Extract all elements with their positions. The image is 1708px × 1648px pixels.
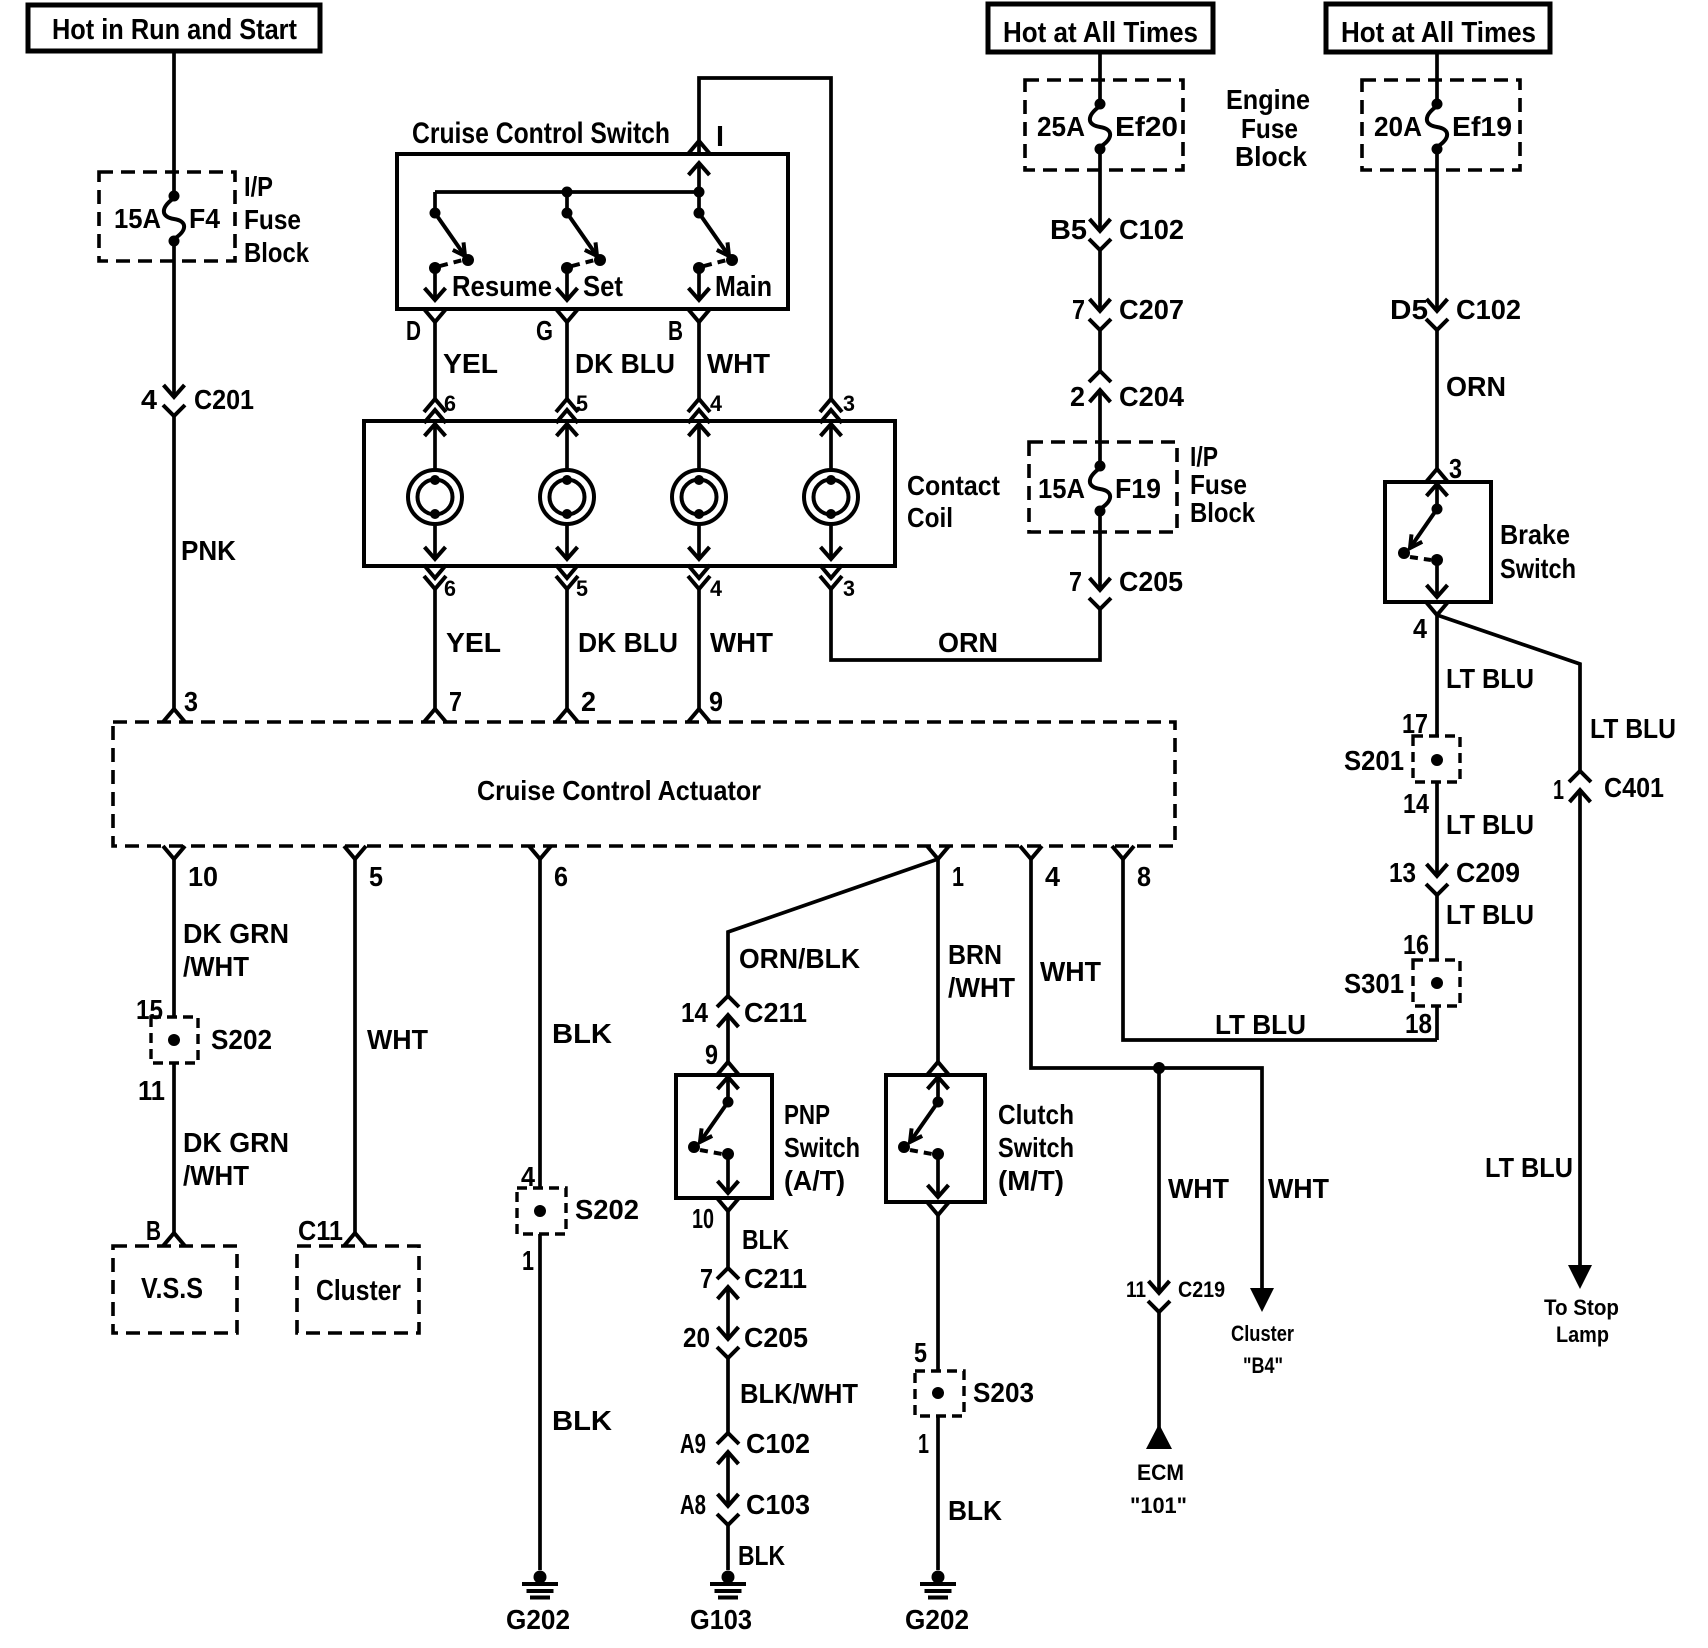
connector C102 pin D5 [1390, 294, 1521, 330]
label LT BLU right branch [1590, 713, 1676, 744]
svg-text:5: 5 [369, 861, 383, 892]
svg-text:9: 9 [705, 1039, 718, 1070]
wire F19 to connector C205 [1098, 510, 1102, 590]
svg-text:/WHT: /WHT [948, 972, 1015, 1003]
svg-text:D5: D5 [1390, 294, 1428, 325]
wire BLK C103 to ground G103 [728, 1525, 785, 1571]
junction node on WHT wire [1153, 1062, 1165, 1074]
svg-text:Block: Block [1190, 497, 1255, 528]
wire DK BLU switch G to coil 5 [567, 322, 675, 399]
connector C205 pin 20 [683, 1322, 808, 1358]
actuator pin 5 [344, 846, 383, 892]
svg-text:BLK: BLK [948, 1495, 1002, 1526]
svg-text:14: 14 [681, 997, 708, 1028]
PNP switch pin 9 [717, 1062, 739, 1075]
svg-text:Switch: Switch [998, 1132, 1074, 1163]
svg-text:DK GRN: DK GRN [183, 918, 289, 949]
svg-text:Hot at All Times: Hot at All Times [1341, 17, 1536, 49]
svg-text:G202: G202 [506, 1604, 570, 1635]
svg-text:Cluster: Cluster [316, 1275, 401, 1307]
svg-text:20: 20 [683, 1322, 710, 1353]
connector C401 pin 1 [1553, 771, 1664, 805]
svg-text:B: B [146, 1215, 161, 1246]
svg-text:3: 3 [843, 576, 855, 601]
svg-text:C207: C207 [1119, 294, 1184, 325]
svg-text:Cluster: Cluster [1231, 1321, 1294, 1346]
wire to fuse Ef20 [1098, 52, 1102, 104]
svg-text:14: 14 [1403, 788, 1429, 819]
svg-text:LT BLU: LT BLU [1485, 1152, 1573, 1183]
svg-text:13: 13 [1389, 857, 1416, 888]
svg-text:4: 4 [710, 391, 723, 416]
svg-text:"B4": "B4" [1243, 1353, 1283, 1378]
svg-text:WHT: WHT [1268, 1173, 1329, 1204]
svg-text:4: 4 [1413, 613, 1427, 644]
fuse F19 15A [1038, 461, 1161, 517]
coil pin 4 top [688, 391, 723, 423]
actuator pin 10 [163, 846, 218, 892]
connector C102 pin A9 [680, 1428, 810, 1464]
coil pin 6 top [424, 391, 456, 423]
switch common bus wire [435, 187, 705, 198]
svg-text:Switch: Switch [784, 1132, 860, 1163]
svg-text:BLK: BLK [552, 1405, 612, 1436]
svg-text:7: 7 [449, 686, 462, 717]
wire LT BLU brake switch to S201 [1435, 615, 1439, 736]
splice S203 pin 5 label [914, 1337, 927, 1368]
wire Ef19 to connector C102 [1435, 148, 1439, 311]
label I/P Fuse Block [244, 171, 309, 268]
ground G103 [690, 1571, 752, 1636]
svg-text:C211: C211 [744, 997, 807, 1028]
svg-text:Coil: Coil [907, 502, 953, 533]
resume switch blade [425, 192, 553, 303]
svg-text:WHT: WHT [367, 1024, 428, 1055]
coil pin 3 top [820, 391, 855, 423]
connector C211 pin 14 [681, 996, 807, 1028]
arrow to stop lamp [1568, 1265, 1592, 1289]
PNP switch contacts [688, 1077, 739, 1193]
svg-text:ECM: ECM [1137, 1460, 1184, 1485]
svg-text:Brake: Brake [1500, 519, 1570, 550]
label PNP Switch (A/T) [784, 1099, 860, 1196]
wire ORN/BLK actuator 1 diagonal to connector C211 [728, 859, 938, 996]
splice S202 (left) [151, 1017, 198, 1063]
ECM terminal triangle [1146, 1424, 1172, 1449]
svg-text:LT BLU: LT BLU [1590, 713, 1676, 744]
label ECM "101" [1130, 1460, 1187, 1518]
svg-text:I: I [716, 121, 724, 153]
svg-text:Set: Set [583, 271, 623, 303]
connector C219 pin 11 [1126, 1277, 1225, 1312]
label PNK [181, 535, 236, 566]
I/P fuse block (dashed) around F4 [99, 172, 235, 261]
svg-text:Cruise Control Actuator: Cruise Control Actuator [477, 775, 761, 806]
svg-text:DK BLU: DK BLU [578, 627, 678, 658]
svg-text:S201: S201 [1344, 745, 1404, 776]
wire LT BLU C209 to S301 [1437, 895, 1534, 960]
svg-text:6: 6 [444, 391, 456, 416]
wire C204 to fuse F19 [1098, 390, 1102, 466]
actuator pin 3 [163, 686, 198, 722]
label Cruise Control Switch [412, 117, 670, 150]
splice S301 [1413, 960, 1460, 1006]
svg-text:Fuse: Fuse [1241, 113, 1298, 144]
svg-text:5: 5 [914, 1337, 927, 1368]
coil pin 5 top [556, 391, 588, 423]
coil pin 4 bottom [688, 565, 723, 601]
svg-text:10: 10 [188, 861, 218, 892]
svg-text:DK BLU: DK BLU [575, 348, 675, 379]
actuator pin 8 [1112, 846, 1151, 892]
label DK GRN/WHT upper [183, 918, 289, 982]
svg-text:C103: C103 [746, 1489, 810, 1520]
label LT BLU horizontal [1215, 1009, 1306, 1040]
splice S201 [1413, 736, 1460, 782]
svg-text:I/P: I/P [244, 171, 273, 202]
actuator pin 1 [927, 846, 964, 892]
svg-text:/WHT: /WHT [183, 951, 249, 982]
svg-text:WHT: WHT [710, 627, 773, 658]
splice S203 pin 1 label [918, 1428, 929, 1459]
svg-text:C205: C205 [1119, 566, 1183, 597]
svg-text:Contact: Contact [907, 470, 1000, 501]
svg-text:S202: S202 [211, 1024, 272, 1055]
actuator pin 7 [424, 686, 462, 722]
cluster box (dashed) [297, 1246, 419, 1333]
wire YEL switch D to coil 6 [435, 322, 498, 399]
engine fuse block (dashed) around Ef20 [1025, 80, 1183, 170]
label DK GRN/WHT lower [183, 1127, 289, 1191]
svg-text:BLK: BLK [552, 1018, 612, 1049]
svg-text:WHT: WHT [1040, 956, 1101, 987]
set switch blade [557, 192, 624, 303]
svg-text:C219: C219 [1178, 1277, 1225, 1302]
contact coil winding 3 [672, 424, 726, 559]
svg-text:Block: Block [244, 237, 309, 268]
wire LT BLU diagonal to connector C401 [1437, 615, 1580, 771]
svg-text:5: 5 [576, 391, 588, 416]
svg-text:B: B [668, 315, 683, 346]
svg-text:20A: 20A [1374, 111, 1422, 142]
clutch switch box [886, 1075, 985, 1202]
svg-text:8: 8 [1137, 861, 1151, 892]
svg-text:Main: Main [715, 271, 772, 303]
svg-text:1: 1 [522, 1245, 534, 1276]
svg-text:PNP: PNP [784, 1099, 830, 1130]
connector C211 pin 7 [700, 1263, 807, 1299]
svg-text:3: 3 [1449, 453, 1462, 484]
V.S.S box (dashed) [113, 1246, 237, 1333]
svg-text:D: D [406, 315, 421, 346]
svg-text:4: 4 [710, 576, 723, 601]
svg-text:15A: 15A [114, 203, 161, 234]
svg-text:YEL: YEL [446, 627, 501, 658]
connector C201 pin 4 [141, 384, 254, 416]
svg-text:7: 7 [700, 1263, 713, 1294]
wire LT BLU C401 to stop lamp [1485, 790, 1580, 1270]
svg-text:C211: C211 [744, 1263, 807, 1294]
svg-text:S301: S301 [1344, 968, 1404, 999]
splice S201 pin 17 label [1402, 708, 1428, 739]
wire WHT junction to connector C219 [1159, 1068, 1229, 1293]
svg-text:15A: 15A [1038, 473, 1085, 504]
wire to fuse Ef19 [1435, 52, 1439, 104]
wire S301 to LT BLU junction [1435, 1006, 1439, 1040]
svg-text:Fuse: Fuse [244, 204, 301, 235]
wire C211 to C205 [726, 1287, 730, 1339]
I/P fuse block (dashed) around F19 [1029, 442, 1177, 532]
svg-text:2: 2 [581, 686, 596, 717]
wire from switch top pin I over to contact coil pin 3 [699, 78, 831, 399]
svg-text:Hot in Run and Start: Hot in Run and Start [52, 14, 297, 46]
svg-text:Clutch: Clutch [998, 1099, 1074, 1130]
label Cluster "B4" [1231, 1321, 1294, 1378]
label Clutch Switch (M/T) [998, 1099, 1074, 1196]
label Engine Fuse Block [1226, 84, 1310, 172]
svg-text:5: 5 [576, 576, 588, 601]
svg-text:ORN/BLK: ORN/BLK [739, 943, 860, 974]
svg-text:Hot at All Times: Hot at All Times [1003, 17, 1198, 49]
splice S301 pin 18 label [1405, 1008, 1432, 1039]
wire BLK/WHT C205 to C102 [728, 1358, 858, 1433]
svg-text:C205: C205 [744, 1322, 808, 1353]
svg-text:S202: S202 [575, 1194, 639, 1225]
svg-text:6: 6 [444, 576, 456, 601]
wire LT BLU S201 to C209 [1437, 782, 1534, 876]
wire ORN C102 to brake switch [1437, 330, 1506, 469]
svg-text:I/P: I/P [1190, 441, 1218, 472]
wire C219 to ECM [1157, 1311, 1161, 1428]
label S202 left [211, 1024, 272, 1055]
svg-text:Ef20: Ef20 [1115, 111, 1178, 142]
label ORN/BLK [739, 943, 860, 974]
svg-text:Lamp: Lamp [1556, 1322, 1609, 1347]
wire YEL coil 6 to actuator 7 [435, 589, 501, 709]
label LT BLU below brake switch [1446, 663, 1534, 694]
svg-text:3: 3 [184, 686, 198, 717]
svg-text:F4: F4 [189, 203, 220, 234]
feed arrow into switch bus [689, 163, 710, 192]
actuator pin 4 [1020, 846, 1060, 892]
wire WHT coil 4 to actuator 9 [699, 589, 773, 709]
svg-text:C102: C102 [1456, 294, 1521, 325]
wire BLK actuator 6 to splice S202 [540, 859, 612, 1188]
svg-text:Block: Block [1235, 141, 1307, 172]
svg-text:To Stop: To Stop [1544, 1295, 1619, 1320]
power source box "Hot at All Times" (engine) [988, 4, 1213, 52]
svg-text:C401: C401 [1604, 772, 1664, 803]
switch pin B [668, 309, 710, 346]
svg-text:16: 16 [1403, 929, 1429, 960]
svg-text:ORN: ORN [938, 627, 998, 658]
svg-text:3: 3 [843, 391, 855, 416]
svg-text:S203: S203 [973, 1377, 1034, 1408]
svg-text:F19: F19 [1115, 473, 1161, 504]
svg-text:4: 4 [141, 384, 157, 415]
label I/P Fuse Block right [1190, 441, 1255, 528]
svg-text:7: 7 [1069, 566, 1082, 597]
svg-text:Engine: Engine [1226, 84, 1310, 115]
contact coil box [364, 421, 895, 566]
wire BLK PNP to C211 [728, 1211, 789, 1268]
brake switch box [1385, 482, 1491, 602]
svg-text:7: 7 [1072, 294, 1085, 325]
svg-text:"101": "101" [1130, 1493, 1187, 1518]
svg-text:B5: B5 [1050, 214, 1087, 245]
splice S202 pin 4 label [521, 1161, 535, 1192]
ground G202 right [905, 1571, 969, 1636]
wire BRN/WHT actuator 1 down to clutch switch [936, 859, 940, 1062]
actuator pin 9 [688, 686, 723, 722]
svg-text:11: 11 [1126, 1277, 1146, 1302]
main switch blade [689, 192, 773, 303]
svg-text:G: G [536, 315, 553, 346]
wire LT BLU actuator 8 to splice S301 pin 18 [1123, 859, 1437, 1040]
wire F4 to connector C201 [172, 241, 176, 397]
svg-text:C201: C201 [194, 384, 254, 415]
svg-text:WHT: WHT [1168, 1173, 1229, 1204]
wire BLK S203 to ground G202 [938, 1416, 1002, 1570]
svg-text:2: 2 [1070, 381, 1085, 412]
svg-text:YEL: YEL [443, 348, 498, 379]
svg-text:C102: C102 [746, 1428, 810, 1459]
connector C205 pin 7 [1069, 566, 1183, 609]
svg-text:1: 1 [1553, 774, 1564, 805]
connector C103 pin A8 [680, 1489, 810, 1525]
svg-text:WHT: WHT [707, 348, 770, 379]
svg-text:Switch: Switch [1500, 553, 1576, 584]
PNP switch box [676, 1075, 772, 1198]
svg-text:1: 1 [918, 1428, 929, 1459]
fuse F4 15A [114, 191, 220, 247]
wire WHT actuator 5 to cluster [355, 859, 428, 1233]
clutch switch contacts [898, 1077, 949, 1197]
svg-text:10: 10 [692, 1203, 714, 1234]
svg-text:BLK: BLK [738, 1540, 785, 1571]
wire WHT switch B to coil 4 [699, 322, 770, 399]
splice S202 (middle) [517, 1188, 566, 1234]
cruise control switch box [397, 154, 788, 309]
power source box "Hot in Run and Start" [28, 5, 320, 51]
wire DK BLU coil 5 to actuator 2 [567, 589, 678, 709]
svg-text:6: 6 [554, 861, 568, 892]
svg-text:C11: C11 [298, 1215, 343, 1246]
label Contact Coil [907, 470, 1000, 533]
svg-text:A9: A9 [680, 1428, 706, 1459]
svg-text:BRN: BRN [948, 939, 1002, 970]
svg-text:25A: 25A [1037, 111, 1085, 142]
contact coil winding 4 [804, 424, 858, 559]
svg-text:Fuse: Fuse [1190, 469, 1247, 500]
label S202 middle [575, 1194, 639, 1225]
splice S301 pin 16 label [1403, 929, 1429, 960]
splice S202 pin 15 label [136, 994, 163, 1025]
coil pin 5 bottom [556, 565, 588, 601]
label Brake Switch [1500, 519, 1576, 584]
brake switch pin 3 [1426, 453, 1462, 484]
coil pin 6 bottom [424, 565, 456, 601]
svg-text:Resume: Resume [452, 271, 552, 303]
connector C204 pin 2 [1070, 371, 1184, 412]
brake switch contacts [1398, 484, 1448, 597]
clutch switch top pin [927, 1062, 949, 1075]
svg-text:DK GRN: DK GRN [183, 1127, 289, 1158]
svg-text:4: 4 [1045, 861, 1060, 892]
switch pin D [406, 309, 446, 346]
PNP switch pin 10 [692, 1198, 739, 1234]
actuator pin 2 [556, 686, 596, 722]
svg-text:LT BLU: LT BLU [1446, 663, 1534, 694]
svg-text:/WHT: /WHT [183, 1160, 249, 1191]
svg-text:BLK: BLK [742, 1224, 789, 1255]
wire PNK to cruise control actuator pin 3 [172, 416, 176, 709]
label S203 [973, 1377, 1034, 1408]
label S201 [1344, 745, 1404, 776]
svg-text:LT BLU: LT BLU [1215, 1009, 1306, 1040]
svg-text:A8: A8 [680, 1489, 706, 1520]
svg-text:V.S.S: V.S.S [141, 1273, 203, 1305]
wire C102 to C103 [726, 1452, 730, 1506]
label WHT cluster branch [1268, 1173, 1329, 1204]
svg-text:9: 9 [709, 686, 723, 717]
svg-text:Cruise Control Switch: Cruise Control Switch [412, 117, 670, 150]
splice S202 pin 1 label [522, 1245, 534, 1276]
svg-text:LT BLU: LT BLU [1446, 809, 1534, 840]
wire C207 to C204 [1098, 330, 1102, 371]
wire C102 to C207 [1098, 250, 1102, 311]
splice S202 pin 11 label [138, 1075, 165, 1106]
svg-text:11: 11 [138, 1075, 165, 1106]
svg-text:ORN: ORN [1446, 371, 1506, 402]
fuse Ef20 25A [1037, 99, 1178, 155]
wire clutch switch to splice S203 [936, 1215, 940, 1371]
svg-text:LT BLU: LT BLU [1446, 899, 1534, 930]
coil pin 3 bottom [820, 565, 855, 601]
connector C102 pin B5 [1050, 214, 1184, 250]
V.S.S pin B [146, 1215, 185, 1246]
contact coil winding 2 [540, 424, 594, 559]
wire C211 to PNP switch pin 9 [705, 1015, 728, 1070]
connector C207 pin 7 [1072, 294, 1184, 330]
wire from Hot in Run and Start to fuse F4 [172, 51, 176, 196]
wire BLK S202 to ground G202 [540, 1234, 612, 1570]
switch pin G [536, 309, 578, 346]
splice S203 [915, 1371, 964, 1416]
cruise control actuator box (dashed) [113, 722, 1175, 846]
svg-text:1: 1 [952, 861, 964, 892]
svg-text:(A/T): (A/T) [784, 1165, 845, 1196]
actuator pin 6 [529, 846, 568, 892]
wire Ef20 to connector C102 [1098, 148, 1102, 231]
svg-text:Ef19: Ef19 [1452, 111, 1512, 142]
engine fuse block (dashed) around Ef19 [1362, 80, 1520, 170]
fuse Ef19 20A [1374, 99, 1512, 155]
label BRN/WHT [948, 939, 1015, 1003]
svg-text:C209: C209 [1456, 857, 1520, 888]
clutch switch bottom pin [927, 1202, 949, 1215]
svg-text:C204: C204 [1119, 381, 1184, 412]
wire ORN coil 3 to connector C205 [831, 589, 1100, 660]
wire WHT actuator 4 with branch to cluster B4 [1031, 859, 1262, 1290]
brake switch pin 4 [1413, 602, 1448, 644]
svg-text:(M/T): (M/T) [998, 1165, 1064, 1196]
svg-text:G202: G202 [905, 1604, 969, 1635]
label S301 [1344, 968, 1404, 999]
cluster pin C11 [298, 1215, 366, 1246]
svg-text:BLK/WHT: BLK/WHT [740, 1378, 858, 1409]
switch pin I [688, 121, 724, 154]
